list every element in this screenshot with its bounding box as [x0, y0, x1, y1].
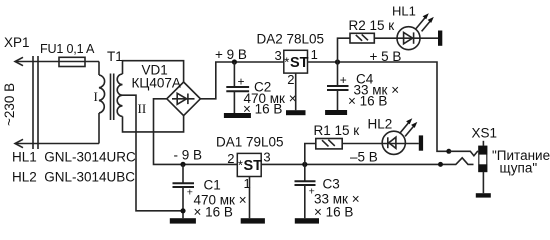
ground under C3 [295, 218, 319, 223]
connector XP1 pin 2 arrow [15, 139, 23, 147]
terminal bar after HL2 [419, 135, 423, 150]
terminal bar after HL1 [438, 31, 442, 46]
wire XS1 body to ground [482, 172, 484, 193]
wire R1 to HL2 [342, 143, 419, 145]
wire primary bottom lead [98, 113, 100, 144]
svg-text:HL1: HL1 [392, 4, 416, 19]
svg-text:HL1 GNL-3014URC: HL1 GNL-3014URC [12, 150, 136, 165]
connector XP1 socket bars [33, 56, 38, 149]
svg-text:3: 3 [275, 48, 282, 63]
svg-text:× 16 В: × 16 В [243, 102, 282, 117]
wire bridge plus up to +9 rail [200, 62, 283, 99]
LED HL1 [397, 13, 434, 50]
voltage regulator DA1 79L05 [237, 153, 262, 176]
svg-text:КЦ407А: КЦ407А [132, 76, 181, 91]
resistor R1 [316, 139, 342, 149]
wire R2 to HL1 [374, 37, 438, 39]
ground under XS1 [476, 193, 491, 197]
label C1 value [194, 178, 247, 220]
wire secondary bottom to bridge bottom corner [123, 116, 184, 132]
LED HL2 [382, 118, 417, 154]
node C1 bottom / common rail [180, 208, 185, 213]
svg-text:× 16 В: × 16 В [314, 205, 353, 220]
wire DA1 pin1 to ground [249, 177, 251, 219]
bridge rectifier VD1 diamond [167, 82, 201, 116]
svg-text:C1: C1 [204, 178, 221, 193]
connector XS1 bottom contact dot [438, 162, 443, 167]
wire bridge minus to -9 rail [154, 99, 238, 165]
connector XP1 pin 1 arrow [15, 57, 23, 65]
svg-text:+: + [187, 186, 193, 198]
svg-text:R1 15 к: R1 15 к [314, 123, 360, 138]
capacitor C3 [295, 164, 316, 218]
wire junction up to R2 row [338, 38, 351, 62]
wire mains top from plug pin to fuse [15, 61, 99, 63]
XS1 jack body [478, 141, 487, 172]
bridge internal diode [172, 93, 195, 104]
svg-text:× 16 В: × 16 В [194, 204, 233, 219]
svg-text:–5 В: –5 В [350, 150, 378, 165]
svg-text:XS1: XS1 [472, 126, 498, 141]
XS1 top contact spring [449, 151, 478, 156]
wire -5 rail from DA1 output to XS1 [261, 158, 473, 165]
svg-text:ST: ST [290, 55, 309, 71]
svg-text:ST: ST [244, 158, 263, 174]
ground under C1 [170, 218, 196, 223]
svg-text:XP1: XP1 [4, 35, 30, 50]
svg-text:HL2: HL2 [368, 117, 393, 132]
capacitor C4 [327, 62, 349, 110]
svg-text:+: + [238, 75, 245, 89]
transformer T1 primary winding I [99, 75, 105, 113]
svg-text:2: 2 [287, 72, 294, 87]
svg-text:*: * [238, 158, 243, 173]
svg-text:+: + [340, 73, 347, 87]
transformer T1 core [111, 74, 114, 121]
wire secondary top to bridge top corner [123, 61, 184, 82]
resistor R2 [350, 33, 374, 43]
capacitor C1 [173, 164, 195, 218]
svg-text:T1: T1 [107, 49, 123, 64]
svg-text:I: I [94, 89, 98, 104]
svg-text:- 9 В: - 9 В [174, 148, 203, 163]
label C4 value [348, 72, 399, 109]
svg-text:DA1 79L05: DA1 79L05 [216, 135, 284, 150]
svg-text:3: 3 [263, 150, 270, 165]
wire junction up to R1 row [305, 144, 316, 165]
ground under C4 [325, 110, 347, 115]
node -9/C1 junction [180, 162, 185, 167]
svg-text:1: 1 [311, 47, 318, 62]
wire +5 rail from DA2 output to XS1 [308, 62, 449, 151]
svg-text:II: II [138, 101, 147, 116]
wire fuse to transformer primary [98, 62, 100, 76]
ground under DA2 [286, 110, 306, 115]
node +5/C4/R2 junction [335, 59, 340, 64]
svg-text:щупа": щупа" [500, 161, 538, 176]
ground under C2 [224, 113, 251, 118]
svg-text:DA2 78L05: DA2 78L05 [257, 32, 325, 47]
svg-text:FU1 0,1 A: FU1 0,1 A [40, 42, 95, 56]
svg-text:C3: C3 [323, 177, 340, 192]
node +9/C2 junction [232, 59, 237, 64]
svg-text:+ 5 В: + 5 В [370, 49, 402, 64]
label Питание щупа [492, 148, 550, 176]
svg-text:HL2 GNL-3014UBC: HL2 GNL-3014UBC [12, 170, 135, 185]
voltage regulator DA2 78L05 [284, 50, 309, 73]
svg-text:~230 В: ~230 В [2, 83, 17, 126]
wire DA2 pin2 to ground [295, 73, 297, 110]
node -5/C3/R1 junction [302, 162, 307, 167]
svg-text:*: * [284, 55, 289, 70]
svg-text:2: 2 [227, 151, 234, 166]
ground under DA1 [241, 218, 265, 223]
label C3 value [314, 177, 360, 220]
transformer T1 secondary winding II [117, 74, 122, 116]
svg-text:+ 9 В: + 9 В [215, 47, 247, 62]
fuse FU1 [59, 57, 85, 66]
capacitor C2 [226, 62, 249, 113]
wire mains bottom from plug pin to primary [15, 143, 99, 145]
connector XS1 top contact dot [446, 149, 451, 154]
svg-text:× 16 В: × 16 В [348, 94, 387, 109]
label C2 value [243, 80, 297, 117]
svg-text:R2 15 к: R2 15 к [349, 18, 395, 33]
wire center tap down to common rail [123, 95, 184, 211]
